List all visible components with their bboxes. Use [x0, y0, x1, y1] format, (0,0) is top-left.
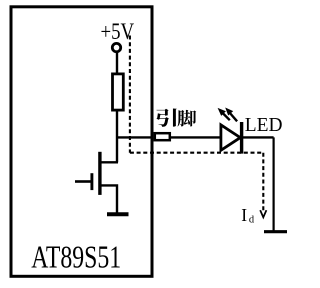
LED light arrow 1 [218, 108, 230, 120]
ground left [107, 212, 129, 216]
transistor Q1 channel bar [98, 152, 101, 195]
transistor Q1 gate lead [75, 180, 91, 183]
power +5V terminal circle [112, 43, 120, 51]
transistor Q1 source lead [101, 185, 117, 212]
transistor Q1 drain lead [101, 161, 118, 163]
label AT89S51 [31, 240, 121, 275]
label LED [245, 114, 283, 136]
power +5V label [100, 18, 134, 44]
arrow head Id [260, 210, 266, 217]
wire cathode to right [243, 136, 274, 138]
ground right [264, 230, 287, 233]
resistor R1 [113, 74, 124, 110]
dashed net vertical from +5V [129, 36, 131, 153]
svg-text:d: d [249, 215, 255, 226]
LED light arrow 2 [225, 108, 237, 122]
wire pin branch to box edge [117, 136, 154, 138]
svg-text:AT89S51: AT89S51 [31, 240, 121, 275]
label pin 引 [156, 108, 176, 126]
svg-text:I: I [241, 205, 247, 225]
LED D1 triangle [221, 125, 240, 150]
wire right down [273, 137, 275, 231]
resistor R2 pin series [155, 133, 170, 140]
LED D1 cathode bar [240, 122, 243, 154]
wire R1 to drain node [116, 110, 118, 162]
wire terminal to R1 [116, 52, 118, 74]
svg-text:LED: LED [245, 114, 283, 136]
svg-text:+5V: +5V [100, 18, 134, 44]
transistor Q1 gate bar [90, 173, 93, 190]
dashed net horizontal [130, 152, 263, 154]
MCU box U1 AT89S51 [11, 7, 152, 277]
wire R2 to LED anode [171, 136, 220, 138]
label pin 脚 [178, 110, 197, 127]
dashed current path Id vertical [262, 153, 264, 211]
